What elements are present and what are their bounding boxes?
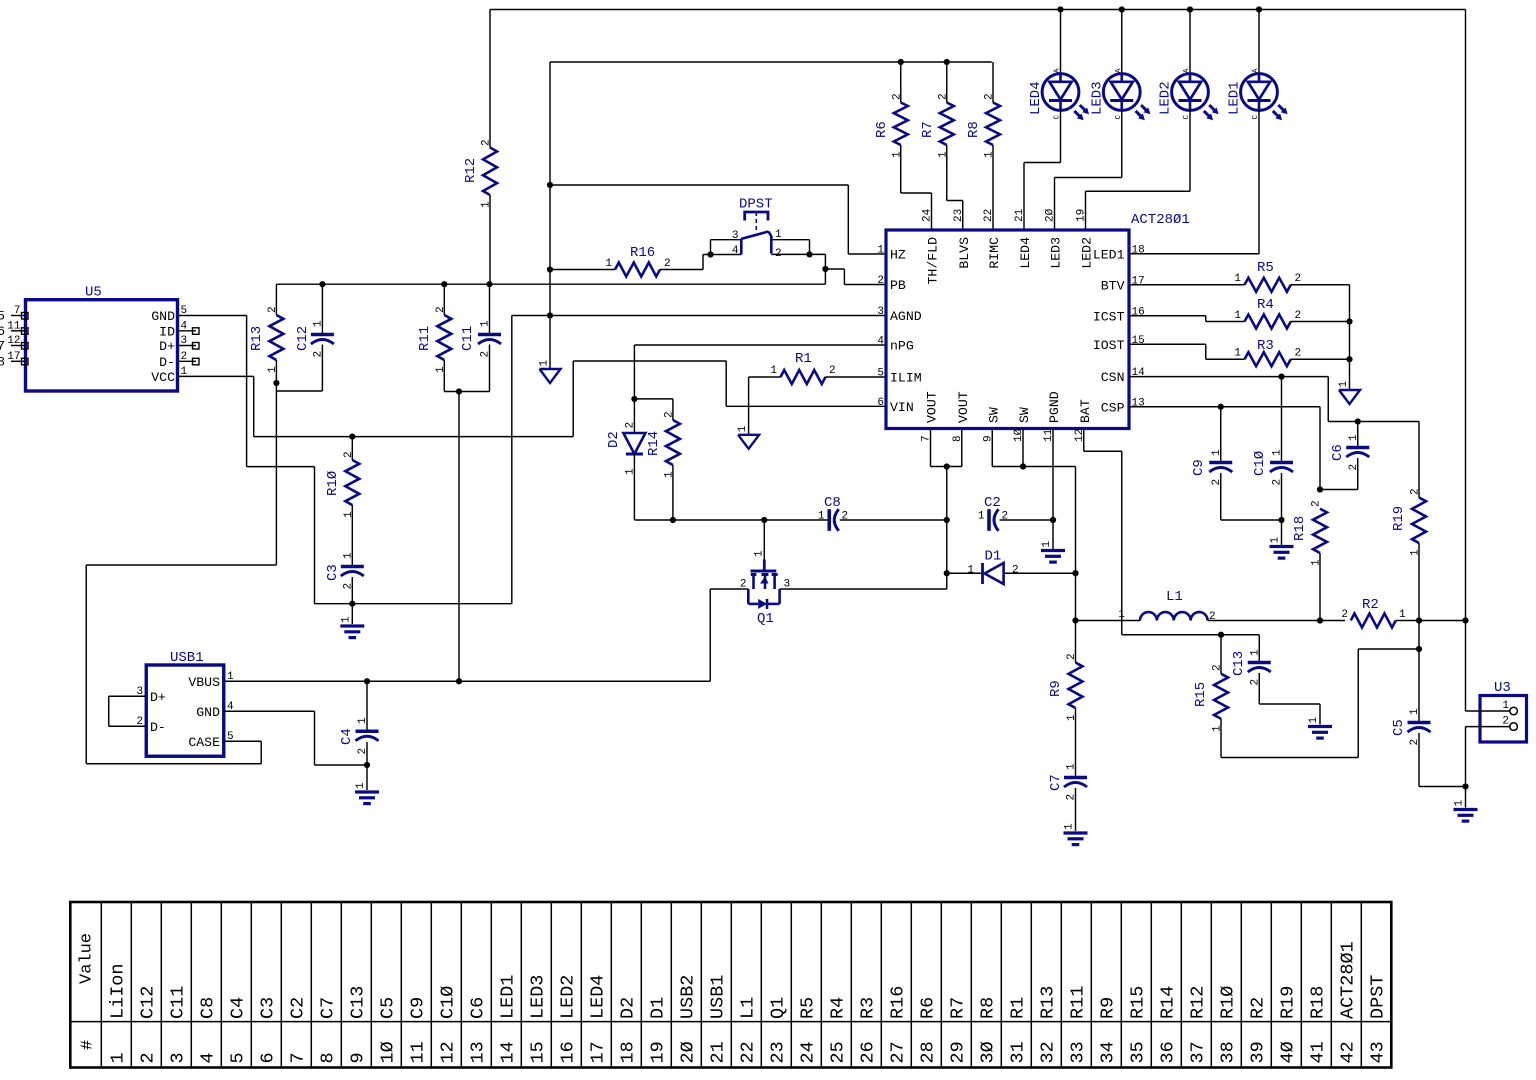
svg-text:USB2: USB2 [677,975,698,1019]
svg-text:C7: C7 [1048,774,1064,791]
svg-text:6: 6 [877,397,884,409]
svg-text:2: 2 [1295,273,1302,285]
svg-text:R2: R2 [1362,597,1379,613]
svg-text:4: 4 [197,1052,218,1063]
svg-text:LED1: LED1 [1227,81,1243,115]
svg-text:1: 1 [1064,823,1076,830]
svg-text:ACT28Ø1: ACT28Ø1 [1337,941,1358,1019]
svg-text:1: 1 [1066,763,1078,770]
svg-text:3: 3 [784,579,791,591]
svg-text:R4: R4 [827,997,848,1019]
svg-text:VOUT: VOUT [925,391,940,423]
svg-text:Q1: Q1 [757,611,774,627]
svg-text:C1Ø: C1Ø [1252,451,1268,476]
svg-text:C3: C3 [257,997,278,1019]
svg-text:1: 1 [539,360,551,367]
svg-text:1: 1 [1234,348,1241,360]
svg-text:R7: R7 [920,121,936,138]
svg-text:36: 36 [1157,1041,1178,1063]
svg-text:12: 12 [437,1041,458,1063]
svg-text:LED3: LED3 [1049,237,1064,269]
svg-text:2: 2 [480,351,492,358]
svg-text:D2: D2 [606,431,622,448]
svg-text:D2: D2 [617,997,638,1019]
svg-text:PB: PB [890,278,906,293]
svg-text:1: 1 [355,782,367,789]
svg-text:ID: ID [159,324,175,339]
svg-text:1: 1 [1270,537,1282,544]
svg-text:C6: C6 [1330,444,1346,461]
svg-text:5: 5 [181,305,188,317]
svg-text:LED1: LED1 [497,975,518,1019]
svg-text:R5: R5 [1257,260,1274,276]
svg-text:D+: D+ [150,690,166,705]
svg-text:R14: R14 [1157,986,1178,1019]
svg-text:1: 1 [877,245,884,257]
svg-text:USB1: USB1 [170,650,204,666]
svg-text:R18: R18 [1307,986,1328,1019]
svg-text:R15: R15 [1127,986,1148,1019]
svg-text:DPST: DPST [1367,975,1388,1019]
svg-text:L1: L1 [1166,589,1183,605]
svg-text:R19: R19 [1391,506,1407,531]
svg-text:33: 33 [1067,1041,1088,1063]
svg-text:BAT: BAT [1078,399,1093,423]
svg-text:D+: D+ [159,339,175,354]
svg-text:R1Ø: R1Ø [325,471,341,496]
svg-text:LED2: LED2 [1080,237,1095,269]
svg-text:22: 22 [737,1041,758,1063]
svg-text:1: 1 [605,258,612,270]
svg-text:LED1: LED1 [1093,247,1125,262]
svg-text:CSP: CSP [1101,400,1125,415]
svg-text:VOUT: VOUT [956,391,971,423]
svg-text:2: 2 [663,411,675,418]
svg-text:C7: C7 [317,997,338,1019]
svg-text:5: 5 [227,1052,248,1063]
svg-text:Value: Value [78,933,97,984]
svg-text:1: 1 [1308,717,1320,724]
svg-text:24: 24 [797,1041,818,1063]
svg-text:38: 38 [1217,1041,1238,1063]
svg-text:U5: U5 [85,285,102,301]
svg-text:2: 2 [829,365,836,377]
svg-text:2: 2 [1410,488,1422,495]
svg-text:26: 26 [857,1041,878,1063]
svg-text:R19: R19 [1277,986,1298,1019]
svg-text:1: 1 [1399,609,1406,621]
svg-text:1: 1 [1454,800,1466,807]
svg-text:4: 4 [877,336,884,348]
svg-text:ILIM: ILIM [890,371,922,386]
svg-text:R1: R1 [795,351,812,367]
svg-text:19: 19 [647,1041,668,1063]
svg-text:1: 1 [340,616,352,623]
svg-text:4: 4 [227,701,234,713]
svg-text:HZ: HZ [890,248,906,263]
svg-text:2: 2 [740,579,747,591]
svg-text:LED4: LED4 [1028,81,1044,115]
svg-text:nPG: nPG [890,339,914,354]
svg-text:C8: C8 [824,495,841,511]
svg-text:R4: R4 [1257,297,1274,313]
svg-text:A: A [1183,68,1191,73]
svg-text:C13: C13 [1231,651,1247,676]
svg-text:R3: R3 [857,997,878,1019]
svg-text:C12: C12 [137,986,158,1019]
svg-text:29: 29 [947,1041,968,1063]
svg-text:R13: R13 [1037,986,1058,1019]
svg-text:1: 1 [967,565,974,577]
svg-text:1: 1 [978,511,985,523]
svg-text:2: 2 [624,422,636,429]
svg-text:R13: R13 [249,326,265,351]
svg-text:2: 2 [937,93,949,100]
svg-text:RIMC: RIMC [987,237,1002,269]
svg-text:VBUS: VBUS [188,675,220,690]
svg-text:LED2: LED2 [1158,81,1174,115]
svg-text:R12: R12 [1187,986,1208,1019]
svg-text:SW: SW [1017,407,1032,423]
svg-text:C9: C9 [1191,459,1207,476]
svg-text:1: 1 [107,1052,128,1063]
svg-text:2: 2 [435,306,447,313]
svg-text:34: 34 [1097,1041,1118,1063]
svg-text:R5: R5 [797,997,818,1019]
svg-text:21: 21 [1014,208,1026,222]
svg-text:1: 1 [818,511,825,523]
svg-text:16: 16 [557,1041,578,1063]
svg-text:C3: C3 [325,564,341,581]
svg-text:1: 1 [342,552,354,559]
svg-text:PGND: PGND [1047,391,1062,423]
svg-text:ACT28Ø1: ACT28Ø1 [1131,212,1190,228]
svg-text:1: 1 [1272,449,1284,456]
svg-text:R3: R3 [1257,338,1274,354]
svg-text:2: 2 [181,351,188,363]
svg-text:18: 18 [1132,244,1145,256]
svg-text:32: 32 [1037,1041,1058,1063]
svg-text:C2: C2 [287,997,308,1019]
svg-text:13: 13 [467,1041,488,1063]
svg-text:22: 22 [983,209,995,222]
svg-text:1: 1 [1502,700,1509,712]
svg-text:IOST: IOST [1093,338,1125,353]
svg-text:R15: R15 [1193,682,1209,707]
svg-text:L1: L1 [737,997,758,1019]
svg-text:A: A [1115,68,1123,73]
svg-text:R6: R6 [874,121,890,138]
svg-text:2: 2 [1212,664,1224,671]
svg-text:1: 1 [1118,609,1125,621]
svg-text:SW: SW [986,407,1001,423]
svg-text:D-: D- [159,355,175,370]
svg-text:1: 1 [1211,449,1223,456]
svg-text:CASE: CASE [188,735,220,750]
svg-text:28: 28 [917,1041,938,1063]
svg-text:1: 1 [312,320,324,327]
svg-text:C11: C11 [167,986,188,1019]
svg-text:8: 8 [0,354,5,369]
svg-text:1: 1 [1409,708,1421,715]
svg-text:2: 2 [137,1052,158,1063]
svg-text:C4: C4 [339,728,355,745]
svg-text:R12: R12 [463,158,479,183]
svg-text:7: 7 [0,339,5,354]
svg-text:2: 2 [1341,609,1348,621]
svg-text:2: 2 [1012,565,1019,577]
svg-text:C6: C6 [467,997,488,1019]
svg-text:C2: C2 [984,495,1001,511]
svg-text:2Ø: 2Ø [677,1041,698,1063]
svg-text:R6: R6 [917,997,938,1019]
svg-text:2: 2 [1502,716,1509,728]
svg-text:19: 19 [1076,209,1088,222]
svg-text:7: 7 [287,1052,308,1063]
svg-text:D1: D1 [647,997,668,1019]
svg-text:C1Ø: C1Ø [437,986,458,1019]
svg-text:R7: R7 [947,997,968,1019]
svg-text:USB1: USB1 [707,975,728,1019]
svg-text:1: 1 [181,366,188,378]
svg-text:39: 39 [1247,1041,1268,1063]
svg-text:2: 2 [984,93,996,100]
svg-text:3Ø: 3Ø [977,1041,998,1063]
svg-text:U3: U3 [1494,680,1511,696]
svg-text:LiIon: LiIon [107,963,128,1019]
svg-text:43: 43 [1367,1041,1388,1063]
svg-text:C9: C9 [407,997,428,1019]
svg-text:5: 5 [227,731,234,743]
svg-text:3: 3 [877,306,884,318]
svg-text:18: 18 [617,1041,638,1063]
svg-text:31: 31 [1007,1041,1028,1063]
svg-text:12: 12 [7,335,20,347]
svg-text:8: 8 [317,1052,338,1063]
svg-text:R1: R1 [1007,997,1028,1019]
svg-text:2: 2 [1311,500,1323,507]
svg-text:3: 3 [181,335,188,347]
svg-text:C8: C8 [197,997,218,1019]
svg-text:2: 2 [877,275,884,287]
svg-text:R2: R2 [1247,997,1268,1019]
svg-text:LED4: LED4 [1018,237,1033,269]
svg-text:2: 2 [1066,653,1078,660]
svg-text:9: 9 [347,1052,368,1063]
svg-text:37: 37 [1187,1041,1208,1063]
svg-text:BTV: BTV [1101,278,1125,293]
svg-text:1: 1 [480,320,492,327]
svg-text:41: 41 [1307,1041,1328,1063]
svg-text:C12: C12 [295,326,311,351]
svg-text:1Ø: 1Ø [377,1041,398,1063]
svg-text:5: 5 [0,309,5,324]
svg-text:17: 17 [7,351,20,363]
svg-text:R16: R16 [887,986,908,1019]
svg-text:4: 4 [732,245,739,257]
svg-text:1: 1 [1348,434,1360,441]
svg-text:42: 42 [1337,1041,1358,1063]
svg-text:2: 2 [1295,310,1302,322]
svg-text:2: 2 [312,351,324,358]
svg-text:GND: GND [196,705,220,720]
svg-text:1: 1 [754,550,766,557]
svg-text:25: 25 [827,1041,848,1063]
svg-text:27: 27 [887,1041,908,1063]
svg-text:DPST: DPST [739,197,773,213]
svg-text:11: 11 [7,320,21,332]
svg-text:ICST: ICST [1093,309,1125,324]
svg-text:R9: R9 [1097,997,1118,1019]
svg-text:5: 5 [877,368,884,380]
svg-text:2: 2 [1295,348,1302,360]
svg-text:1: 1 [1041,541,1053,548]
svg-text:D1: D1 [985,549,1002,565]
svg-text:1: 1 [1338,381,1350,388]
svg-text:R18: R18 [1292,516,1308,541]
svg-text:C5: C5 [377,997,398,1019]
svg-text:R11: R11 [417,326,433,351]
svg-text:3: 3 [167,1052,188,1063]
svg-text:21: 21 [707,1041,728,1063]
svg-text:1: 1 [770,365,777,377]
svg-text:23: 23 [767,1041,788,1063]
svg-text:C4: C4 [227,997,248,1019]
svg-text:2: 2 [481,139,493,146]
svg-text:3: 3 [732,230,739,242]
svg-text:VCC: VCC [151,370,175,385]
svg-text:R11: R11 [1067,986,1088,1019]
svg-text:TH/FLD: TH/FLD [926,237,941,285]
svg-text:R16: R16 [630,245,655,261]
svg-text:R8: R8 [977,997,998,1019]
svg-text:1: 1 [357,717,369,724]
svg-text:6: 6 [257,1052,278,1063]
svg-text:CSN: CSN [1101,370,1125,385]
svg-text:24: 24 [922,208,934,222]
svg-text:2: 2 [267,306,279,313]
svg-text:15: 15 [527,1041,548,1063]
svg-text:A: A [1252,68,1260,73]
svg-text:2: 2 [891,93,903,100]
svg-text:2Ø: 2Ø [1045,208,1057,222]
svg-text:C5: C5 [1391,719,1407,736]
svg-text:GND: GND [151,309,175,324]
svg-text:A: A [1054,68,1062,73]
svg-text:1: 1 [1249,649,1261,656]
svg-text:LED3: LED3 [1089,81,1105,115]
svg-text:11: 11 [407,1041,428,1063]
svg-text:1: 1 [1234,310,1241,322]
svg-text:D-: D- [150,720,166,735]
svg-text:R8: R8 [966,121,982,138]
svg-text:BLVS: BLVS [957,237,972,269]
svg-text:35: 35 [1127,1041,1148,1063]
svg-text:4Ø: 4Ø [1277,1041,1298,1063]
svg-text:C11: C11 [460,326,476,351]
svg-text:C13: C13 [347,986,368,1019]
svg-text:R1Ø: R1Ø [1217,986,1238,1019]
svg-text:1: 1 [737,425,749,432]
svg-text:VIN: VIN [890,400,914,415]
svg-text:2: 2 [664,258,671,270]
svg-text:23: 23 [953,209,965,222]
svg-text:R14: R14 [646,431,662,456]
svg-text:4: 4 [181,320,188,332]
svg-text:LED3: LED3 [527,975,548,1019]
svg-text:LED2: LED2 [557,975,578,1019]
svg-text:AGND: AGND [890,309,922,324]
svg-text:17: 17 [587,1041,608,1063]
svg-text:6: 6 [0,324,5,339]
svg-text:2: 2 [343,451,355,458]
svg-text:7: 7 [14,305,21,317]
svg-text:LED4: LED4 [587,975,608,1019]
svg-text:Q1: Q1 [767,997,788,1019]
svg-text:1: 1 [1234,273,1241,285]
svg-text:#: # [79,1040,98,1050]
svg-text:14: 14 [497,1041,518,1063]
svg-text:R9: R9 [1048,680,1064,697]
